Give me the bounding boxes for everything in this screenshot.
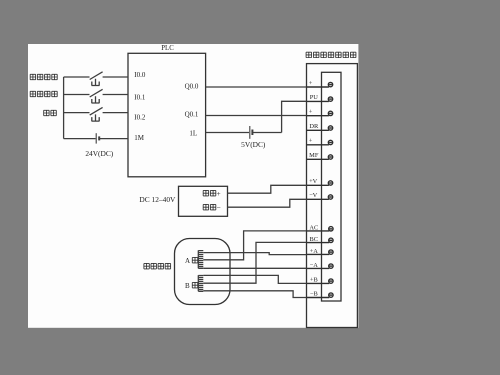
label 步进电机 (stepper motor) <box>144 263 171 268</box>
terminal +A <box>307 253 330 255</box>
terminal DR <box>307 129 329 131</box>
wire Q0.0 to driver + <box>206 86 307 88</box>
switch SB3 pushbutton operator <box>92 114 100 121</box>
wire B top to +B <box>203 275 306 283</box>
PLC box <box>128 53 206 177</box>
battery 24V plates <box>95 133 97 143</box>
terminal AC <box>307 230 330 232</box>
svg-text:1M: 1M <box>134 134 145 142</box>
winding A coil <box>198 250 203 268</box>
driver terminal strip labels <box>309 80 319 298</box>
svg-text:+: + <box>309 138 313 145</box>
svg-text:+: + <box>309 80 313 87</box>
svg-text:5V(DC): 5V(DC) <box>241 140 266 149</box>
driver outer box <box>307 64 358 328</box>
label 停止 (stop) <box>44 110 57 115</box>
svg-text:+: + <box>217 189 221 198</box>
wire A top to +A <box>203 253 306 255</box>
terminal +B <box>307 282 330 284</box>
wire battery 5V to riser <box>253 132 282 134</box>
label 电源- (power -) <box>203 204 216 209</box>
switch SB1 contact <box>90 72 103 80</box>
switch SB1 pushbutton operator <box>92 79 100 86</box>
wire B bottom to -B <box>203 291 306 298</box>
svg-text:BC: BC <box>310 236 319 243</box>
wire row2 right (SB2 to PLC I0.1) <box>103 94 128 96</box>
wire row1 left (bus to switch SB1) <box>64 76 90 78</box>
label 电源+ (power +) <box>203 190 216 195</box>
label 正转启动 (forward start) <box>30 74 57 79</box>
svg-text:−V: −V <box>309 192 318 199</box>
svg-text:A: A <box>185 257 190 265</box>
svg-text:I0.1: I0.1 <box>134 93 146 101</box>
terminal +V <box>307 184 329 186</box>
wire power+ to driver +V <box>228 185 307 193</box>
svg-text:I0.2: I0.2 <box>134 114 146 122</box>
svg-text:Q0.1: Q0.1 <box>185 111 199 119</box>
wire row4 right (battery to PLC 1M) <box>100 138 128 140</box>
left supply bus vertical <box>63 77 65 139</box>
label 相 of B相 <box>192 282 197 287</box>
terminal -A <box>307 267 330 269</box>
white drawing area <box>28 44 358 328</box>
svg-text:DR: DR <box>309 123 319 130</box>
svg-text:+A: +A <box>310 248 319 255</box>
wire row3 right (SB3 to PLC I0.2) <box>103 112 128 114</box>
terminal + (3) <box>307 144 329 146</box>
svg-text:−: − <box>217 203 221 212</box>
wire A mid to AC <box>203 231 306 260</box>
svg-text:+V: +V <box>309 178 318 185</box>
svg-text:PU: PU <box>310 94 319 101</box>
switch SB3 contact <box>90 107 103 115</box>
wire row2 left (bus to switch SB2) <box>64 94 90 96</box>
svg-text:−A: −A <box>310 262 319 269</box>
svg-text:I0.0: I0.0 <box>134 71 146 79</box>
wire Q0.1 to driver + <box>206 115 307 117</box>
svg-text:+B: +B <box>310 277 318 284</box>
svg-text:Q0.0: Q0.0 <box>185 83 199 91</box>
svg-text:−B: −B <box>310 291 318 298</box>
svg-text:AC: AC <box>309 225 318 232</box>
wire row4 (bus to battery 24V) <box>64 138 96 140</box>
wire row1 right (SB1 to PLC I0.0) <box>103 76 128 78</box>
svg-text:PLC: PLC <box>161 45 174 52</box>
label 反转启动 (reverse start) <box>30 91 57 96</box>
terminal + (1) <box>307 86 329 88</box>
terminal BC <box>307 242 330 244</box>
switch SB2 pushbutton operator <box>92 96 100 103</box>
terminal -V <box>307 198 329 200</box>
terminal MF <box>307 158 329 160</box>
riser 5V+ up to PU row <box>282 101 307 132</box>
stepper motor outline <box>175 239 231 305</box>
battery 5V plates <box>249 126 251 139</box>
driver terminal inner box <box>322 72 342 301</box>
wire 1L to battery 5V <box>206 132 249 134</box>
driver terminal screws and connection stubs <box>307 82 334 297</box>
terminal PU <box>307 100 329 102</box>
label 步进电机驱动器 (stepper motor driver) <box>306 52 356 57</box>
svg-text:MF: MF <box>309 152 319 159</box>
svg-text:24V(DC): 24V(DC) <box>85 149 113 158</box>
terminal -B <box>307 297 330 299</box>
winding B coil <box>198 275 203 291</box>
power supply box <box>179 186 228 216</box>
svg-text:B: B <box>185 282 190 290</box>
wire row3 left (bus to switch SB3) <box>64 112 90 114</box>
svg-text:DC 12–40V: DC 12–40V <box>139 195 176 204</box>
terminal + (2) <box>307 115 329 117</box>
wire A bottom to -A <box>203 267 306 269</box>
svg-text:+: + <box>309 109 313 116</box>
switch SB2 contact <box>90 89 103 97</box>
svg-text:1L: 1L <box>189 129 197 137</box>
label 相 of A相 <box>192 257 197 262</box>
wire B mid to BC <box>203 242 306 283</box>
wire power- to driver -V <box>228 199 307 207</box>
